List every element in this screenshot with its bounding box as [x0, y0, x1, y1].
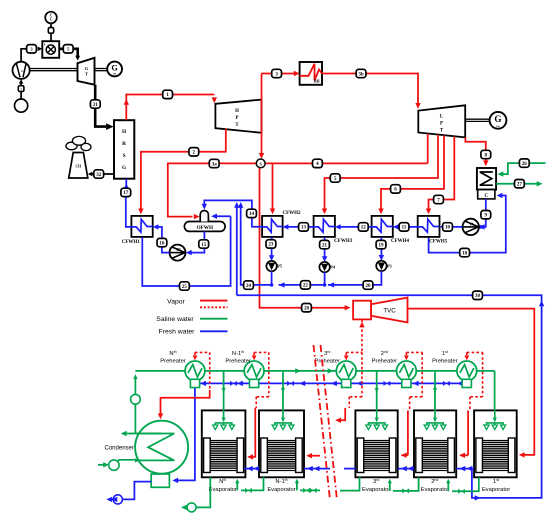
svg-text:Evaporator: Evaporator: [362, 487, 390, 493]
wire 19 CFWH4 drain to P3: [379, 237, 384, 261]
svg-text:P1: P1: [470, 222, 474, 226]
svg-text:32: 32: [96, 173, 102, 178]
wire fuel to combustor: [50, 23, 52, 41]
generator G2: [490, 112, 507, 131]
condenser sump: [151, 474, 169, 487]
reheater RH: [300, 62, 322, 85]
wire brine N-1 to N: [235, 477, 263, 493]
wire 25 CFWH1 drain: [142, 216, 230, 286]
wire brine 1 to 2: [446, 477, 479, 494]
node 30 box: [473, 291, 483, 299]
svg-text:H: H: [235, 109, 239, 114]
svg-text:13: 13: [301, 226, 307, 231]
svg-text:26: 26: [522, 162, 528, 167]
wire 17 CFWH1 to HRSG: [124, 179, 132, 227]
pump P1: [463, 219, 479, 235]
svg-text:C: C: [484, 194, 488, 199]
legend vapor: [167, 298, 227, 307]
legend saline water: [156, 316, 227, 323]
splitter S: [256, 159, 265, 168]
wire 23 CFWH2 drain to P5: [269, 237, 274, 261]
HPT turbine: [215, 100, 261, 133]
wire distillate header: [200, 381, 471, 386]
wire flange cascade 3-break: [344, 468, 356, 470]
LPT turbine: [418, 105, 465, 137]
svg-text:Evaporator: Evaporator: [267, 487, 295, 493]
wire feed branch evaporator N: [222, 371, 226, 411]
wire feed to preheaters: [131, 371, 186, 434]
wire 24 drains to OFWH: [238, 202, 273, 287]
svg-text:28: 28: [304, 307, 310, 312]
evaporator N-1: [259, 410, 304, 492]
thermocompressor TVC: [353, 298, 407, 323]
shaft GT-generator: [95, 69, 108, 71]
wire vapor 2 to 3 solid: [401, 411, 408, 458]
wire brine 3 to 4th: [340, 477, 360, 490]
wire TVC motive suction dashed: [359, 319, 364, 327]
svg-text:30: 30: [475, 294, 481, 299]
vapor net effect 2 dashed: [404, 352, 422, 410]
wire 20 drain header: [328, 271, 381, 288]
wire 3a to OFWH: [168, 163, 214, 219]
node 9 box: [481, 211, 491, 219]
wire feed branch evaporator N-1: [281, 371, 285, 411]
generator G1: [107, 62, 122, 78]
preheater 2: [372, 350, 417, 388]
wire HRSG to chimney: [88, 172, 114, 176]
wire 10 P1 to CFWH5: [440, 224, 463, 229]
compressor C: [13, 62, 30, 79]
condenser HX box: [477, 168, 496, 190]
MED condenser: [105, 421, 189, 474]
wire 7 LPT extraction to CFWH5: [426, 136, 455, 214]
feedwater heater CFWH4: [372, 216, 410, 244]
HRSG box: [114, 120, 134, 179]
svg-text:Evaporator: Evaporator: [482, 487, 510, 493]
wire feed branch evaporator 1: [494, 371, 496, 411]
svg-text:Preheater: Preheater: [225, 358, 251, 364]
wire brine 2 to 3: [388, 477, 419, 493]
node 16 box: [157, 238, 167, 246]
gas turbine GT: [78, 58, 95, 85]
wire vapor N-1 to N solid: [247, 408, 255, 460]
wire 3b RH to LPT: [322, 74, 421, 109]
legend fresh water: [159, 329, 228, 336]
wire 11 CFWH5 to CFWH4: [393, 224, 418, 229]
node 1 steam box: [163, 90, 173, 98]
wire distillate N to condenser sump: [172, 388, 195, 483]
svg-text:10: 10: [445, 226, 451, 231]
svg-text:19: 19: [379, 243, 385, 248]
svg-text:OFWH: OFWH: [197, 225, 213, 231]
svg-text:27: 27: [517, 183, 523, 188]
svg-text:20: 20: [366, 284, 372, 289]
air inlet circle: [15, 99, 28, 112]
wire 12 CFWH4 to CFWH3: [335, 224, 372, 229]
svg-text:Evaporator: Evaporator: [209, 487, 237, 493]
evaporator 3: [355, 410, 397, 492]
wire 3 to reheater: [262, 71, 300, 76]
preheater N: [160, 350, 205, 388]
wire 18 CFWH5 drain to hotwell: [429, 193, 506, 253]
svg-text:Saline water: Saline water: [156, 316, 194, 323]
svg-text:1: 1: [20, 88, 22, 92]
wire flange cascade 2-3: [398, 466, 414, 471]
svg-text:Preheater: Preheater: [160, 358, 186, 364]
wire flange cascade 1-2: [456, 466, 474, 471]
svg-text:P: P: [236, 116, 239, 121]
node 24 box: [244, 281, 254, 289]
svg-text:CFWH5: CFWH5: [429, 240, 448, 245]
wire fresh water product out: [106, 482, 151, 504]
wire flange cascade N-1-N: [244, 466, 259, 471]
vapor net effect 1 dashed: [464, 352, 482, 410]
evaporator 1: [474, 410, 517, 492]
pump P2: [170, 245, 186, 261]
feedwater heater CFWH1: [122, 216, 153, 245]
node 3 box: [27, 45, 37, 53]
wire brine out: [181, 477, 210, 512]
shaft compressor-GT: [30, 69, 78, 71]
svg-text:Condenser: Condenser: [105, 446, 134, 452]
node 7 box: [434, 195, 444, 203]
svg-text:3b: 3b: [358, 72, 364, 77]
vapor net effect N-1 dashed: [252, 352, 269, 408]
wire seawater inlet: [98, 460, 136, 471]
svg-text:P5: P5: [277, 264, 282, 269]
node 8 box: [481, 150, 491, 158]
evaporator 2: [414, 410, 456, 492]
wire 1 HRSG to HPT: [124, 95, 217, 121]
wire 15 OFWH to P2: [186, 231, 205, 255]
shaft LPT-generator: [465, 119, 490, 121]
svg-text:CFWH4: CFWH4: [391, 239, 410, 244]
wire vapor N to condenser solid: [158, 390, 210, 419]
node 3b box: [356, 69, 366, 77]
wire 30 distillate to OFWH: [234, 202, 239, 295]
diagram break marks: [314, 345, 338, 500]
wire 4 header to splitter: [214, 162, 428, 164]
wire vapor 1 to 2 solid: [459, 411, 468, 459]
node 5 box: [63, 45, 73, 53]
fuel source circle CC: [45, 12, 57, 24]
wire 6 LPT extraction to CFWH4: [378, 135, 444, 214]
node 23 box: [266, 240, 276, 248]
svg-text:Preheater: Preheater: [432, 358, 458, 364]
wire 4a down to CFWH2: [270, 163, 275, 214]
node 19 box: [376, 240, 386, 248]
wire 25 into OFWH: [211, 214, 230, 219]
svg-text:G: G: [494, 114, 501, 124]
svg-text:16: 16: [159, 241, 165, 246]
node 25 box: [180, 282, 190, 290]
node 14 box: [247, 209, 257, 217]
svg-text:11: 11: [402, 226, 407, 231]
feedwater heater CFWH3: [314, 216, 353, 244]
node 12 box: [358, 223, 368, 231]
svg-text:3a: 3a: [212, 162, 218, 167]
wire saline feed main: [185, 368, 495, 373]
wire 21 CFWH3 drain to P4: [322, 237, 327, 262]
svg-text:25: 25: [182, 285, 188, 290]
svg-text:14: 14: [249, 212, 255, 217]
node 6 box: [391, 185, 401, 193]
svg-text:R: R: [122, 141, 126, 147]
svg-text:24: 24: [246, 284, 252, 289]
svg-text:12: 12: [361, 226, 367, 231]
svg-text:CFWH1: CFWH1: [122, 240, 141, 245]
wire feed branch evaporator 2: [433, 371, 437, 411]
wire 26 seawater to condenser: [498, 163, 546, 177]
svg-text:P3: P3: [387, 263, 392, 268]
svg-text:RH: RH: [314, 80, 320, 84]
svg-text:21: 21: [322, 243, 328, 248]
evaporator N: [202, 410, 246, 492]
preheater N-1: [225, 350, 264, 388]
svg-text:S: S: [259, 161, 262, 166]
wire 28 splitter to TVC: [260, 168, 351, 311]
svg-text:17: 17: [123, 191, 129, 196]
svg-text:P: P: [440, 121, 443, 126]
node 22 box: [301, 281, 311, 289]
svg-text:C: C: [50, 18, 53, 22]
svg-text:23: 23: [268, 243, 274, 248]
pump P4: [319, 262, 335, 272]
svg-text:P2: P2: [177, 248, 181, 252]
svg-text:CFWH3: CFWH3: [334, 239, 353, 244]
wire 4 LPT extraction: [427, 134, 429, 164]
wire 8 LPT exhaust to condenser: [465, 137, 488, 166]
vapor net effect 3 dashed: [344, 352, 362, 408]
node 2 box: [189, 148, 199, 156]
pump P3: [376, 261, 392, 271]
node 5 steam box: [330, 174, 340, 182]
wire 30 distillate main: [237, 295, 545, 500]
wire TVC suction riser dashed: [361, 325, 363, 353]
svg-text:TVC: TVC: [383, 308, 396, 315]
wire vapor 4th to N-1 solid: [306, 453, 320, 458]
svg-text:S: S: [123, 153, 126, 159]
feedwater heater CFWH2: [262, 211, 301, 237]
wire 27 seawater out: [496, 181, 542, 186]
svg-text:18: 18: [462, 251, 468, 256]
wire brine 4th to N-1: [295, 479, 320, 493]
node 4 box: [313, 159, 323, 167]
wire GT exhaust to HRSG: [95, 85, 113, 130]
node 15 box: [199, 240, 209, 248]
wire HPT exhaust riser: [259, 74, 264, 159]
svg-text:22: 22: [303, 284, 309, 289]
node 27 box: [515, 180, 525, 188]
fuel valve connector: [48, 28, 53, 34]
wire 14 CFWH2 to OFWH: [202, 200, 263, 226]
wire 2 HPT extraction to CFWH1: [138, 129, 226, 215]
condenser hotwell C box: [478, 190, 495, 199]
wire 9 hotwell to P1: [479, 199, 486, 230]
preheater 1: [432, 350, 477, 388]
wire 16 P2 to CFWH1: [153, 224, 170, 252]
wire vapor 3 to 4th solid: [335, 408, 345, 423]
deaerator OFWH: [184, 211, 225, 232]
svg-text:T: T: [85, 72, 88, 77]
wire combustor to gas turbine: [59, 49, 80, 61]
wire compressor to combustor: [21, 47, 42, 62]
node 11 box: [399, 223, 409, 231]
svg-text:CH: CH: [76, 165, 82, 169]
wire 5 LPT extraction to CFWH3: [322, 135, 438, 215]
svg-text:Vapor: Vapor: [167, 298, 185, 305]
svg-text:G: G: [85, 66, 89, 71]
svg-text:Preheater: Preheater: [372, 358, 398, 364]
node 26 box: [519, 159, 529, 167]
svg-text:Fresh water: Fresh water: [159, 329, 196, 336]
node 18 box: [460, 248, 470, 256]
svg-text:CFWH2: CFWH2: [282, 211, 301, 216]
wire flange cascade break-N-1: [304, 466, 330, 471]
svg-text:15: 15: [201, 243, 207, 248]
chimney smoke: [66, 136, 91, 150]
wire TVC discharge to evaporator 1: [408, 309, 535, 458]
node 1 box: [18, 86, 24, 92]
preheater 3: [314, 350, 356, 388]
pump P5: [266, 261, 282, 271]
node 10 box: [443, 223, 453, 231]
node 21 box: [320, 240, 330, 248]
wire feed branch evaporator 3: [375, 371, 379, 411]
node 28 box: [302, 304, 312, 312]
node 3 steam box: [272, 69, 282, 77]
node 32 box: [94, 170, 104, 178]
chimney CH: [69, 153, 88, 179]
node 13 box: [299, 223, 309, 231]
combustion chamber CC box: [42, 41, 59, 58]
wire 13 CFWH3 to CFWH2: [283, 224, 314, 229]
svg-text:Evaporator: Evaporator: [421, 487, 449, 493]
node 20 box: [363, 281, 373, 289]
wire air to compressor: [19, 79, 23, 99]
node 17 box: [121, 188, 131, 196]
wire 22 drain header: [279, 272, 327, 287]
wire condenser outlet tee: [121, 431, 162, 436]
node 3a box: [209, 159, 219, 167]
svg-text:Preheater: Preheater: [314, 358, 340, 364]
feedwater heater CFWH5: [418, 216, 448, 245]
node 31 box: [90, 100, 100, 108]
vapor net effect N dashed: [193, 352, 210, 390]
svg-text:31: 31: [93, 103, 99, 108]
